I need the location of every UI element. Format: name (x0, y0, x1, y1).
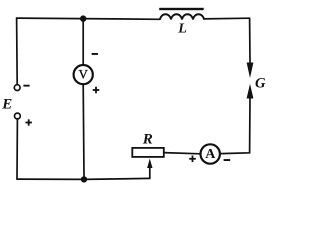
junction dot top (80, 15, 86, 21)
label minus (E upper) (23, 85, 29, 87)
terminal + of source E (lower open circle) (15, 113, 21, 119)
svg-text:V: V (79, 67, 89, 82)
inductor L core bar (159, 8, 204, 10)
ammeter A body (201, 144, 220, 163)
voltmeter V body (74, 65, 93, 84)
wire top-right horizontal (204, 17, 250, 20)
label minus (ammeter right) (224, 159, 231, 161)
inductor L coil (160, 14, 204, 19)
label + (ammeter left) (189, 156, 196, 163)
wire right vertical upper (to gap, down arrow shaft) (249, 18, 251, 63)
svg-text:E: E (1, 96, 12, 112)
svg-text:G: G (255, 76, 266, 92)
label + (E lower) (26, 119, 32, 125)
rheostat wiper arrowhead (147, 159, 152, 168)
wire rheostat wiper shaft (149, 167, 151, 179)
wire voltmeter bottom lead (82, 84, 85, 176)
arrowhead down (gap upper) (247, 63, 254, 79)
wire right vertical lower (up arrow shaft to ammeter corner) (221, 96, 250, 154)
wire ammeter to rheostat (164, 153, 200, 154)
svg-text:R: R (142, 132, 153, 148)
terminal minus of source E (upper open circle) (14, 85, 20, 91)
svg-text:A: A (205, 147, 216, 162)
svg-text:L: L (177, 22, 187, 37)
wire bottom-left vertical (E positive lead) (16, 119, 18, 179)
label + (voltmeter bottom) (93, 87, 100, 94)
arrowhead up (gap lower) (247, 84, 254, 99)
label minus (voltmeter top) (92, 53, 98, 55)
wire top-left horizontal (17, 18, 160, 19)
wire top-left vertical (E negative lead) (16, 18, 19, 84)
junction dot bottom (81, 176, 87, 182)
wire bottom horizontal (17, 178, 150, 179)
wire voltmeter top lead (82, 19, 84, 65)
rheostat R body (132, 148, 164, 157)
